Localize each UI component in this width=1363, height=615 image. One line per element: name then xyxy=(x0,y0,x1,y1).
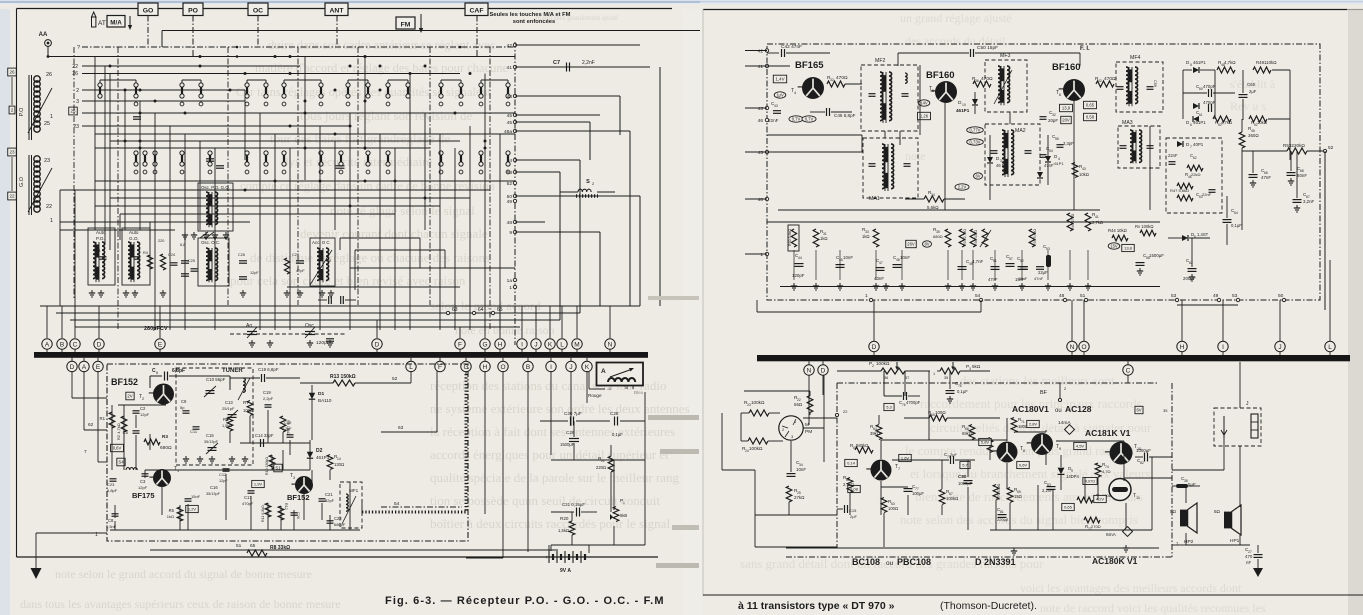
svg-text:46 P1: 46 P1 xyxy=(996,163,1008,168)
svg-text:47nF: 47nF xyxy=(1261,175,1271,180)
diode D1 BA110 xyxy=(311,385,313,408)
capacitor C16 15nF xyxy=(185,498,192,500)
capacitor C76 4700pF xyxy=(903,392,905,400)
svg-text:64: 64 xyxy=(478,307,484,313)
svg-text:2: 2 xyxy=(11,108,14,113)
svg-text:1,5kΩ: 1,5kΩ xyxy=(222,424,232,428)
button CAF xyxy=(465,3,488,16)
tuner component drop wires xyxy=(111,405,113,428)
svg-text:2: 2 xyxy=(76,88,79,94)
wire bottom rail y550 xyxy=(150,549,558,551)
svg-text:20V: 20V xyxy=(1062,118,1070,123)
ground symbols trimmer row xyxy=(251,340,253,343)
svg-text:4700pF: 4700pF xyxy=(906,400,921,405)
svg-text:49: 49 xyxy=(507,199,513,205)
svg-text:45: 45 xyxy=(507,120,513,126)
svg-text:C29: C29 xyxy=(566,430,575,435)
svg-text:I: I xyxy=(521,341,523,348)
svg-text:12pF: 12pF xyxy=(219,479,228,483)
transistor T8 xyxy=(997,442,1018,463)
svg-text:1: 1 xyxy=(865,293,868,299)
wire link 53-49 bracket xyxy=(1177,304,1238,306)
wire bus y198 xyxy=(110,197,470,199)
svg-text:I: I xyxy=(550,364,552,371)
svg-text:C24: C24 xyxy=(168,253,175,257)
F.I. section dash-dot frame xyxy=(767,44,1320,300)
svg-text:HP2: HP2 xyxy=(1184,539,1194,545)
wire I drop xyxy=(550,371,552,455)
svg-text:100Ω: 100Ω xyxy=(935,410,946,415)
svg-text:34: 34 xyxy=(931,193,935,197)
wire rail y391 xyxy=(744,390,810,392)
svg-text:2,2V: 2,2V xyxy=(958,185,967,190)
audio internal wires xyxy=(881,439,1007,441)
svg-text:pour cela son cadre et bien ré: pour cela son cadre et bien révisé avec … xyxy=(230,273,466,288)
svg-text:C25: C25 xyxy=(188,259,195,263)
wire bus y141 xyxy=(110,140,460,142)
resistor R34 5.6k xyxy=(924,196,944,202)
svg-text:R6: R6 xyxy=(223,417,229,422)
svg-text:0,65: 0,65 xyxy=(1086,103,1095,108)
svg-text:H: H xyxy=(483,364,488,371)
capacitor C20 xyxy=(291,512,298,514)
svg-text:M: M xyxy=(574,341,579,348)
svg-text:43: 43 xyxy=(507,94,513,100)
svg-text:8: 8 xyxy=(1023,449,1025,453)
svg-text:42: 42 xyxy=(507,43,513,49)
svg-text:45: 45 xyxy=(758,150,764,156)
svg-text:R4: R4 xyxy=(143,251,148,255)
wire PM to box xyxy=(803,417,837,419)
svg-text:tour des baies fort grandrégla: tour des baies fort grandréglage de xyxy=(270,131,450,146)
svg-text:54: 54 xyxy=(1049,149,1053,153)
wire bus y306 xyxy=(40,305,640,307)
svg-text:R47 5,6kΩ: R47 5,6kΩ xyxy=(1170,188,1189,193)
resistor R12 vertical xyxy=(278,506,284,520)
wire right collector vertical xyxy=(659,67,661,306)
wire line y312 right xyxy=(757,311,981,313)
button M/A with AT label and antenna jack xyxy=(92,12,96,17)
svg-text:0,65: 0,65 xyxy=(1064,504,1073,509)
svg-text:R49110kΩ: R49110kΩ xyxy=(1256,60,1277,65)
svg-text:P.O: P.O xyxy=(19,107,25,116)
svg-text:0,1μF: 0,1μF xyxy=(612,432,623,437)
IF transformer MF1 xyxy=(340,482,362,528)
svg-text:E: E xyxy=(158,341,163,348)
button GO xyxy=(138,3,158,16)
svg-text:C13: C13 xyxy=(225,400,233,405)
svg-text:48a: 48a xyxy=(504,129,512,135)
wire bus y135 right xyxy=(767,134,862,136)
svg-text:A: A xyxy=(45,341,50,348)
svg-text:42: 42 xyxy=(758,49,764,55)
resistor R39 5.6k xyxy=(1029,229,1035,247)
svg-text:BF160: BF160 xyxy=(1052,62,1081,73)
resistor R71 180 xyxy=(1011,418,1017,433)
svg-text:48: 48 xyxy=(1059,293,1065,299)
svg-text:1,4ST: 1,4ST xyxy=(1197,232,1209,237)
wire C terminal drop xyxy=(1127,375,1129,383)
svg-text:2,2nF: 2,2nF xyxy=(1042,488,1053,493)
svg-text:L: L xyxy=(560,341,564,348)
svg-text:D: D xyxy=(375,341,380,348)
svg-text:461P1: 461P1 xyxy=(1193,120,1206,125)
top scan band xyxy=(0,0,1363,5)
svg-text:voici les avantages des meille: voici les avantages des meilleurs accord… xyxy=(1020,581,1242,595)
svg-text:C19: C19 xyxy=(284,420,292,425)
svg-text:R7: R7 xyxy=(243,400,249,405)
IF transformer MF3 box xyxy=(985,60,1027,112)
transistor T10 xyxy=(1110,442,1133,465)
svg-text:3,3pF: 3,3pF xyxy=(1063,141,1074,146)
svg-text:1kΩ: 1kΩ xyxy=(167,514,174,519)
wire bus y134 xyxy=(95,133,515,135)
svg-text:0,1μF: 0,1μF xyxy=(1231,223,1242,228)
svg-text:10nF: 10nF xyxy=(900,255,910,260)
trimmer caps near transformers xyxy=(181,260,189,262)
svg-text:65: 65 xyxy=(250,543,256,549)
resistor R7 100 xyxy=(247,401,253,416)
switch shaft line 2 xyxy=(227,47,229,305)
svg-text:52: 52 xyxy=(1328,145,1334,151)
svg-text:2,2pF: 2,2pF xyxy=(282,427,292,431)
svg-text:note de raccord voici les qual: note de raccord voici les qualités recon… xyxy=(1040,601,1266,615)
wire verticals into transformer bank xyxy=(59,190,61,306)
svg-text:R1: R1 xyxy=(100,416,106,421)
svg-text:9: 9 xyxy=(1059,447,1061,451)
svg-text:MA1: MA1 xyxy=(869,196,880,202)
svg-text:39kΩ: 39kΩ xyxy=(870,431,880,436)
svg-text:C50 15pF: C50 15pF xyxy=(977,45,998,51)
svg-text:36: 36 xyxy=(975,79,979,83)
FI box bottom nodes xyxy=(869,298,872,301)
capacitor C21 82pF xyxy=(319,498,326,500)
transformer Acc. O.C. xyxy=(310,238,335,286)
resistor R64 39k xyxy=(876,425,882,440)
svg-text:duire dans son cadre antérieur: duire dans son cadre antérieur se réglan… xyxy=(268,38,496,52)
resistor R9 18k vertical xyxy=(280,416,286,432)
coil PO tap arrow xyxy=(28,88,52,133)
transformer MA1 box xyxy=(863,138,918,198)
svg-text:5kB: 5kB xyxy=(620,513,627,518)
resistor R65 100 xyxy=(929,415,947,421)
svg-text:note ré glage selon le signal: note ré glage selon le signal xyxy=(330,203,475,218)
wire button CAF stem xyxy=(476,16,478,57)
svg-text:de distingue le réglage où cha: de distingue le réglage où chacune des r… xyxy=(250,250,490,265)
wire bus y268 short xyxy=(350,267,515,269)
wire stubs FI to right bar xyxy=(873,300,875,341)
svg-text:62: 62 xyxy=(1193,156,1197,160)
svg-text:AC181K V1: AC181K V1 xyxy=(1085,428,1131,438)
svg-text:BF160: BF160 xyxy=(926,70,955,81)
svg-text:2μF: 2μF xyxy=(850,514,858,519)
resistor R38 470 xyxy=(1067,213,1073,231)
transformer Osc. P.O. G.O. xyxy=(198,183,233,231)
svg-text:15V: 15V xyxy=(1110,244,1118,249)
left bar terminals below xyxy=(71,358,73,362)
svg-text:3: 3 xyxy=(76,99,79,105)
button PO xyxy=(183,3,203,16)
svg-text:7: 7 xyxy=(1190,145,1192,149)
resistors R37 R36 vertical pair xyxy=(959,229,965,247)
resistor R31 1k xyxy=(813,229,819,247)
svg-text:64: 64 xyxy=(1234,211,1238,215)
left dash-dot shaft xyxy=(73,47,75,300)
svg-text:461P1: 461P1 xyxy=(956,108,970,113)
svg-text:4,97Ω: 4,97Ω xyxy=(1085,479,1095,483)
svg-text:F. I.: F. I. xyxy=(1080,46,1090,52)
shielded dotted line horizontal xyxy=(362,511,466,514)
svg-text:C45 6,8pF: C45 6,8pF xyxy=(834,113,856,118)
wire bus y56 xyxy=(48,56,515,58)
svg-text:9: 9 xyxy=(1071,469,1073,473)
right page edge shadow xyxy=(1348,9,1363,615)
svg-text:Auto: Auto xyxy=(129,230,139,235)
svg-text:43: 43 xyxy=(758,106,764,112)
svg-text:C19 6,8pF: C19 6,8pF xyxy=(258,367,279,372)
svg-text:470pF: 470pF xyxy=(1203,100,1216,105)
right page bottom rule xyxy=(703,594,1363,596)
resistor R6 1.5k xyxy=(227,417,233,431)
svg-text:360Ω: 360Ω xyxy=(1248,133,1259,138)
resistor R41 2.7k xyxy=(1085,213,1091,231)
svg-text:26: 26 xyxy=(46,72,52,78)
svg-text:220Ω: 220Ω xyxy=(596,465,606,470)
svg-text:BF165: BF165 xyxy=(795,60,824,71)
svg-text:5kΩ: 5kΩ xyxy=(972,364,981,369)
svg-text:G.O.: G.O. xyxy=(129,236,139,241)
svg-text:2,2nF: 2,2nF xyxy=(582,60,595,66)
svg-text:1kΩ: 1kΩ xyxy=(862,234,870,239)
svg-text:C20: C20 xyxy=(296,512,300,519)
svg-text:C21: C21 xyxy=(325,492,333,497)
svg-text:78: 78 xyxy=(958,384,962,388)
svg-text:L: L xyxy=(1328,344,1332,351)
svg-text:2: 2 xyxy=(142,397,144,401)
svg-text:R5: R5 xyxy=(169,508,175,513)
wire rail y545 xyxy=(551,544,645,546)
svg-text:D2: D2 xyxy=(316,448,323,454)
svg-text:BF152: BF152 xyxy=(111,377,138,387)
switch S4 box xyxy=(117,458,125,466)
transformer Auto G.O. xyxy=(122,228,150,285)
bleed bars near gutter xyxy=(648,415,699,420)
svg-text:130Ω: 130Ω xyxy=(334,462,344,467)
svg-text:C14 33pF: C14 33pF xyxy=(255,433,274,438)
svg-text:AA: AA xyxy=(39,32,48,38)
svg-text:1: 1 xyxy=(760,252,763,258)
svg-text:CAF: CAF xyxy=(470,8,484,15)
svg-text:22kΩ: 22kΩ xyxy=(1191,172,1200,177)
dash-dot node 54 line xyxy=(381,506,462,508)
svg-text:1: 1 xyxy=(623,501,625,505)
svg-text:J: J xyxy=(534,341,537,348)
button ANT xyxy=(325,3,348,16)
row 1 contact link wires xyxy=(100,79,136,81)
capacitor C80 1000uF xyxy=(964,480,973,482)
svg-text:C15: C15 xyxy=(206,433,214,438)
svg-text:25/1pF: 25/1pF xyxy=(222,406,235,411)
svg-text:53: 53 xyxy=(507,170,513,176)
svg-text:0,73V: 0,73V xyxy=(970,140,981,145)
right page gutter line xyxy=(702,9,704,596)
node ladder vertical dash-dot xyxy=(514,42,516,345)
svg-text:MF3: MF3 xyxy=(1000,53,1010,59)
svg-text:BC108: BC108 xyxy=(852,557,880,567)
svg-text:G.O: G.O xyxy=(19,176,25,187)
svg-text:22: 22 xyxy=(46,204,52,210)
svg-text:6V: 6V xyxy=(975,174,980,179)
svg-text:470Ω: 470Ω xyxy=(836,75,848,81)
svg-text:22μF: 22μF xyxy=(1038,270,1048,275)
wire FI component stubs to bottom rail xyxy=(793,250,795,280)
svg-text:4,7nF: 4,7nF xyxy=(972,259,984,264)
svg-text:S4: S4 xyxy=(118,460,124,465)
vertical wires upper-left grid xyxy=(94,57,96,231)
svg-text:J: J xyxy=(1278,344,1281,351)
svg-text:5: 5 xyxy=(932,89,934,93)
svg-text:35/13pF: 35/13pF xyxy=(204,440,219,444)
svg-text:5Ω: 5Ω xyxy=(1214,509,1221,514)
svg-text:10nF: 10nF xyxy=(796,467,806,472)
svg-text:L: L xyxy=(409,364,413,371)
svg-text:52: 52 xyxy=(392,376,398,382)
potentiometer P3 5k xyxy=(940,368,960,374)
wire bus y313 xyxy=(56,312,580,314)
meter box A xyxy=(597,363,644,386)
wire N D drops xyxy=(808,375,810,425)
resistor R69 15 xyxy=(1007,488,1013,503)
svg-text:PM: PM xyxy=(805,429,812,435)
resistor R2 4.7k xyxy=(121,416,127,432)
resistor R35 680 xyxy=(945,229,951,247)
svg-text:note selon des accords du sign: note selon des accords du signal bien co… xyxy=(900,512,1138,527)
svg-text:+: + xyxy=(545,555,548,561)
svg-text:12pF: 12pF xyxy=(250,271,259,275)
svg-text:680Ω: 680Ω xyxy=(160,445,172,451)
audio box right dash-dot edge xyxy=(1171,383,1173,557)
svg-text:C3: C3 xyxy=(140,479,146,484)
svg-text:R30 5,6kΩ: R30 5,6kΩ xyxy=(788,229,792,246)
svg-text:K: K xyxy=(548,341,553,348)
svg-text:AT: AT xyxy=(98,20,106,27)
svg-text:1μV: 1μV xyxy=(776,93,784,98)
svg-text:B: B xyxy=(526,364,530,371)
svg-text:25: 25 xyxy=(70,109,76,114)
svg-text:51: 51 xyxy=(1080,293,1086,299)
svg-text:D 2N3391: D 2N3391 xyxy=(975,557,1016,567)
svg-text:54: 54 xyxy=(975,293,981,299)
transformer Osc. O.C. xyxy=(198,238,229,286)
button OC xyxy=(248,3,268,16)
ground arrow under C27 xyxy=(1253,568,1263,577)
svg-text:12pF: 12pF xyxy=(140,412,150,417)
svg-text:1,26: 1,26 xyxy=(920,114,929,119)
wire speakers common xyxy=(1185,544,1250,546)
svg-text:F: F xyxy=(438,364,442,371)
svg-text:26V: 26V xyxy=(907,242,915,247)
svg-text:47: 47 xyxy=(879,261,883,265)
svg-text:45: 45 xyxy=(507,113,513,119)
svg-text:50nF: 50nF xyxy=(1297,173,1307,178)
wire bus y148 xyxy=(95,147,430,149)
tuner coil with arrow xyxy=(243,378,245,392)
svg-text:0,14: 0,14 xyxy=(847,460,856,465)
svg-text:470Ω: 470Ω xyxy=(1104,76,1116,82)
boxed 6V right xyxy=(1135,406,1143,413)
audio box bottom xyxy=(786,547,1159,549)
resistor R3 680 xyxy=(144,439,160,445)
svg-text:680Ω: 680Ω xyxy=(933,234,943,239)
svg-text:55: 55 xyxy=(1055,137,1059,141)
switch contacts row 1 lower circles xyxy=(134,102,138,106)
svg-text:un grand réglage ajusté: un grand réglage ajusté xyxy=(900,11,1012,25)
switch contacts row 2 xyxy=(134,151,138,155)
svg-text:devenir courant dont chacun si: devenir courant dont chacun signale xyxy=(300,226,488,241)
svg-text:22nF: 22nF xyxy=(1168,153,1178,158)
svg-text:H: H xyxy=(1180,344,1185,351)
audio box top dash-dot xyxy=(837,382,1159,384)
svg-text:I: I xyxy=(1222,344,1224,351)
svg-text:4,7Ω: 4,7Ω xyxy=(1102,469,1111,474)
svg-text:54: 54 xyxy=(507,158,513,164)
svg-text:43: 43 xyxy=(1082,167,1086,171)
svg-text:0,7V: 0,7V xyxy=(805,117,814,122)
MF2 secondary small coil xyxy=(905,73,907,83)
svg-text:D: D xyxy=(70,364,75,371)
svg-text:48: 48 xyxy=(507,220,513,226)
audio box left edge xyxy=(836,383,838,548)
svg-text:100kΩ: 100kΩ xyxy=(876,361,890,366)
coil near S4 xyxy=(126,468,137,470)
svg-text:37: 37 xyxy=(905,376,909,380)
svg-text:14V: 14V xyxy=(920,101,928,106)
switch contacts row 1 xyxy=(98,83,102,87)
svg-text:tous jours réglant son révisio: tous jours réglant son révision de xyxy=(300,108,472,123)
svg-text:J: J xyxy=(569,364,572,371)
resistor R8 33k xyxy=(247,550,267,556)
svg-text:81: 81 xyxy=(1000,510,1004,514)
svg-text:9V A: 9V A xyxy=(560,568,571,574)
svg-text:M/A: M/A xyxy=(110,19,122,26)
svg-text:C: C xyxy=(1126,367,1131,374)
svg-text:8V: 8V xyxy=(924,242,929,247)
ground under audio xyxy=(1013,548,1015,551)
transistor T11 open circle xyxy=(1109,479,1131,501)
svg-text:9: 9 xyxy=(509,230,512,236)
svg-text:Rv 100kΩ: Rv 100kΩ xyxy=(1135,224,1154,229)
svg-text:C65: C65 xyxy=(1247,82,1256,87)
svg-text:N: N xyxy=(1070,344,1075,351)
ground symbols under Osc PO GO xyxy=(184,232,186,235)
svg-text:42: 42 xyxy=(1098,79,1102,83)
svg-text:470: 470 xyxy=(1245,554,1253,559)
svg-text:100kΩ: 100kΩ xyxy=(751,400,765,405)
capacitor C8 1.5nF xyxy=(112,513,119,515)
wire B drop xyxy=(527,371,529,552)
svg-text:21: 21 xyxy=(601,459,605,463)
wire button GO stem xyxy=(147,16,149,48)
resistor R36 470 between stages xyxy=(973,81,991,87)
svg-text:12pF: 12pF xyxy=(138,485,148,490)
capacitor C17 470pF xyxy=(248,490,255,492)
svg-text:22: 22 xyxy=(72,64,78,70)
wire rail from K down to B+ node xyxy=(644,392,646,545)
left page edge tint xyxy=(0,9,10,615)
svg-text:1: 1 xyxy=(50,218,53,224)
switch shaft line 6 xyxy=(489,47,491,330)
resistor R24 100k xyxy=(748,438,768,444)
